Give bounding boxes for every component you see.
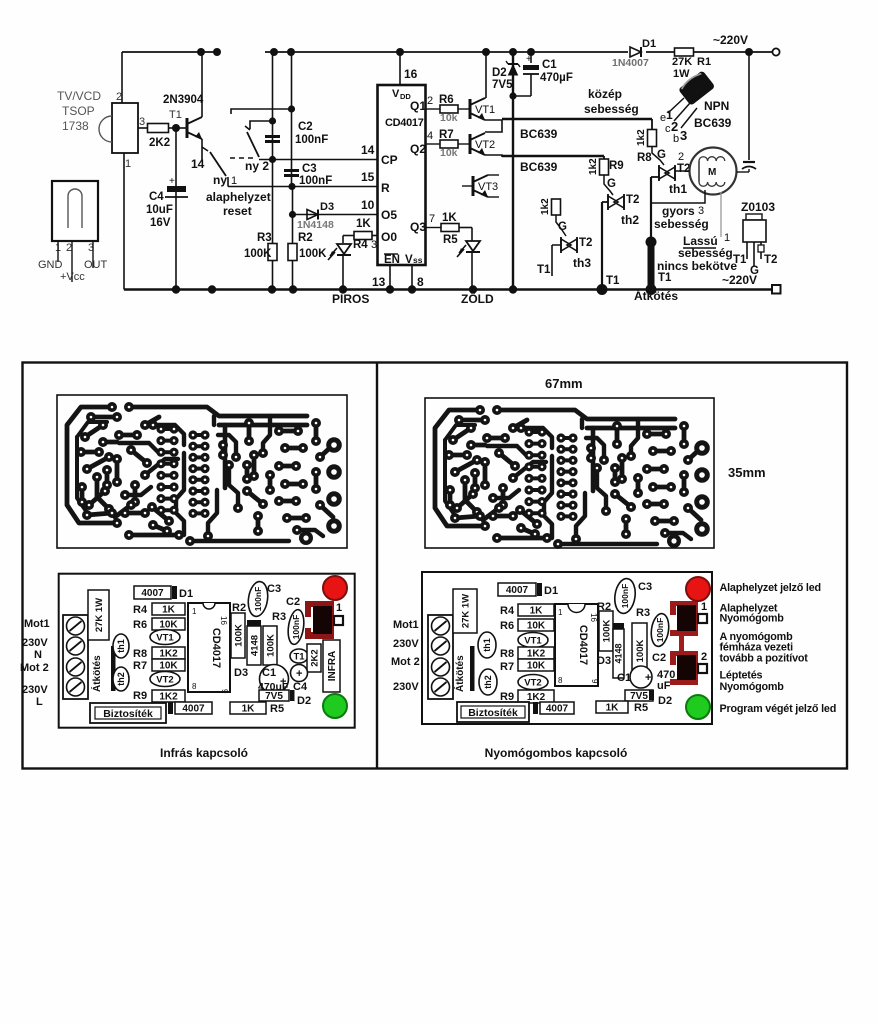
svg-text:G: G [750, 265, 759, 277]
svg-text:230V: 230V [22, 684, 48, 696]
svg-text:tovább a pozitívot: tovább a pozitívot [720, 653, 809, 665]
svg-text:2: 2 [671, 119, 678, 134]
svg-text:230V: 230V [22, 637, 48, 649]
svg-text:10K: 10K [527, 621, 546, 632]
svg-text:VT1: VT1 [524, 635, 542, 646]
svg-text:b: b [673, 133, 679, 145]
svg-text:+: + [645, 672, 651, 684]
svg-text:th2: th2 [621, 213, 639, 227]
svg-text:2: 2 [427, 95, 433, 107]
svg-text:VT2: VT2 [156, 674, 173, 685]
svg-text:th3: th3 [573, 256, 591, 270]
svg-text:Mot1: Mot1 [393, 619, 419, 631]
svg-text:~220V: ~220V [713, 33, 748, 47]
svg-text:T1: T1 [293, 651, 305, 662]
svg-text:100nF: 100nF [291, 615, 301, 640]
svg-text:15: 15 [361, 170, 375, 184]
svg-text:7: 7 [429, 213, 435, 225]
svg-text:közép: közép [588, 87, 622, 101]
svg-text:Átkötés: Átkötés [634, 288, 678, 303]
svg-text:PIROS: PIROS [332, 292, 369, 306]
svg-text:Alaphelyzet jelző led: Alaphelyzet jelző led [720, 582, 821, 594]
svg-text:2: 2 [116, 91, 122, 103]
svg-text:BC639: BC639 [694, 116, 732, 130]
svg-text:16: 16 [219, 616, 228, 625]
svg-text:R1: R1 [697, 56, 711, 68]
svg-text:3: 3 [139, 116, 145, 128]
svg-text:R: R [381, 181, 390, 195]
svg-text:TV/VCD: TV/VCD [57, 89, 101, 103]
svg-text:C3: C3 [638, 581, 652, 593]
svg-text:1: 1 [192, 607, 197, 616]
svg-text:100nF: 100nF [253, 587, 263, 612]
svg-text:R3: R3 [257, 232, 272, 244]
svg-text:1W: 1W [673, 68, 690, 80]
svg-text:th1: th1 [482, 638, 492, 652]
svg-text:4148: 4148 [249, 635, 260, 656]
svg-text:Mot1: Mot1 [24, 618, 50, 630]
svg-text:th2: th2 [483, 675, 493, 689]
svg-text:100nF: 100nF [295, 134, 328, 146]
svg-text:R8: R8 [500, 648, 514, 660]
svg-text:R7: R7 [133, 660, 147, 672]
svg-text:1K2: 1K2 [527, 649, 546, 660]
svg-text:Infrás kapcsoló: Infrás kapcsoló [160, 746, 248, 760]
svg-text:R4: R4 [133, 604, 148, 616]
svg-text:+: + [169, 176, 175, 187]
svg-text:+Vcc: +Vcc [60, 271, 85, 283]
svg-text:R2: R2 [232, 602, 246, 614]
svg-text:100nF: 100nF [299, 175, 332, 187]
svg-text:1K: 1K [442, 212, 457, 224]
svg-text:Q3: Q3 [410, 220, 426, 234]
svg-text:Q2: Q2 [410, 142, 426, 156]
svg-text:ny: ny [213, 173, 227, 187]
svg-text:BC639: BC639 [520, 160, 558, 174]
svg-text:sebesség: sebesség [678, 246, 733, 260]
svg-text:D1: D1 [179, 588, 193, 600]
svg-text:C2: C2 [298, 121, 313, 133]
svg-text:D1: D1 [642, 38, 656, 50]
svg-text:TSOP: TSOP [62, 104, 95, 118]
svg-text:4007: 4007 [506, 585, 529, 596]
svg-text:T2: T2 [677, 163, 690, 175]
svg-text:10k: 10k [440, 112, 458, 124]
svg-text:+: + [296, 668, 302, 680]
svg-text:1: 1 [701, 601, 707, 613]
svg-text:th1: th1 [669, 182, 687, 196]
svg-text:C1: C1 [542, 59, 557, 71]
svg-text:10K: 10K [159, 661, 178, 672]
svg-text:R6: R6 [439, 94, 454, 106]
svg-text:T1: T1 [606, 275, 620, 287]
svg-text:CD4017: CD4017 [385, 117, 424, 129]
svg-text:100K: 100K [299, 248, 327, 260]
svg-text:ss: ss [413, 255, 423, 265]
svg-text:Nyomógomb: Nyomógomb [720, 613, 785, 625]
svg-text:th1: th1 [116, 639, 126, 653]
svg-text:VT1: VT1 [475, 104, 495, 116]
svg-text:1K2: 1K2 [159, 649, 178, 660]
svg-text:D2: D2 [492, 67, 507, 79]
svg-text:M: M [708, 167, 716, 178]
svg-text:V: V [392, 88, 400, 100]
svg-text:D2: D2 [297, 695, 311, 707]
svg-text:T1: T1 [733, 254, 747, 266]
svg-text:+: + [280, 676, 286, 688]
svg-text:27K 1W: 27K 1W [460, 594, 471, 628]
svg-text:16: 16 [589, 613, 598, 622]
svg-text:EN: EN [384, 254, 400, 266]
svg-text:VT2: VT2 [475, 139, 495, 151]
svg-text:R4: R4 [353, 239, 368, 251]
svg-text:230V: 230V [393, 638, 419, 650]
svg-text:T2: T2 [579, 237, 592, 249]
svg-text:1738: 1738 [62, 119, 89, 133]
svg-text:C3: C3 [302, 163, 317, 175]
svg-text:reset: reset [223, 204, 252, 218]
svg-text:gyors: gyors [662, 204, 695, 218]
svg-text:100K: 100K [233, 624, 244, 647]
svg-text:2: 2 [678, 151, 684, 163]
svg-text:2N3904: 2N3904 [163, 94, 204, 106]
svg-text:R6: R6 [500, 620, 514, 632]
svg-text:Léptetés: Léptetés [720, 670, 763, 682]
svg-text:35mm: 35mm [728, 465, 766, 480]
svg-text:Z0103: Z0103 [741, 200, 775, 214]
svg-text:R9: R9 [133, 690, 147, 702]
svg-text:2: 2 [701, 651, 707, 663]
svg-text:CD4017: CD4017 [577, 625, 589, 665]
svg-text:V: V [405, 254, 413, 266]
svg-text:R5: R5 [443, 234, 458, 246]
svg-text:INFRA: INFRA [327, 651, 338, 682]
svg-text:1K: 1K [242, 704, 256, 715]
svg-text:T2: T2 [764, 254, 777, 266]
svg-text:O0: O0 [381, 230, 397, 244]
svg-text:R2: R2 [298, 232, 313, 244]
svg-text:C4: C4 [293, 681, 308, 693]
svg-text:R8: R8 [133, 648, 147, 660]
svg-text:D3: D3 [597, 655, 611, 667]
svg-text:R8: R8 [637, 152, 652, 164]
svg-text:Mot 2: Mot 2 [20, 662, 49, 674]
svg-text:16V: 16V [150, 217, 171, 229]
svg-text:R7: R7 [439, 129, 454, 141]
svg-text:1: 1 [558, 608, 563, 617]
svg-text:T1: T1 [169, 109, 182, 121]
svg-text:Program végét jelző led: Program végét jelző led [720, 703, 837, 715]
svg-text:C2: C2 [652, 652, 666, 664]
svg-text:Nyomógombos kapcsoló: Nyomógombos kapcsoló [485, 746, 628, 760]
svg-text:ZÖLD: ZÖLD [461, 291, 494, 306]
svg-text:1k2: 1k2 [540, 198, 551, 215]
svg-text:1N4148: 1N4148 [297, 219, 334, 231]
svg-text:4148: 4148 [614, 643, 624, 663]
svg-text:C4: C4 [149, 191, 164, 203]
svg-text:GND: GND [38, 259, 63, 271]
svg-text:R4: R4 [500, 605, 515, 617]
svg-text:alaphelyzet: alaphelyzet [206, 190, 271, 204]
svg-text:N: N [34, 649, 42, 661]
svg-text:O5: O5 [381, 208, 397, 222]
svg-text:470µF: 470µF [540, 72, 573, 84]
svg-text:14: 14 [191, 157, 205, 171]
svg-text:Átkötés: Átkötés [90, 655, 103, 692]
svg-text:T1: T1 [658, 272, 672, 284]
svg-text:67mm: 67mm [545, 376, 583, 391]
svg-text:230V: 230V [393, 681, 419, 693]
svg-text:D1: D1 [544, 585, 558, 597]
svg-text:7V5: 7V5 [492, 79, 513, 91]
svg-text:100K: 100K [635, 640, 646, 663]
svg-text:100nF: 100nF [655, 618, 665, 643]
svg-text:8: 8 [192, 682, 197, 691]
svg-text:1: 1 [724, 232, 730, 244]
svg-text:Biztosíték: Biztosíték [468, 707, 518, 719]
svg-text:R5: R5 [634, 702, 648, 714]
svg-text:10uF: 10uF [146, 204, 173, 216]
svg-text:CP: CP [381, 153, 398, 167]
svg-text:sebesség: sebesség [584, 102, 639, 116]
svg-text:7V5: 7V5 [630, 691, 648, 702]
svg-text:4007: 4007 [546, 704, 569, 715]
svg-text:27K: 27K [672, 56, 692, 68]
svg-text:OUT: OUT [84, 259, 108, 271]
svg-text:Biztosíték: Biztosíték [103, 708, 153, 720]
svg-text:ny 2: ny 2 [245, 159, 269, 173]
svg-text:T1: T1 [537, 264, 551, 276]
svg-text:Mot 2: Mot 2 [391, 656, 420, 668]
svg-text:10K: 10K [527, 661, 546, 672]
svg-text:1K: 1K [606, 703, 620, 714]
svg-text:T2: T2 [626, 194, 639, 206]
svg-text:8: 8 [558, 676, 563, 685]
svg-text:13: 13 [372, 275, 386, 289]
svg-text:R6: R6 [133, 619, 147, 631]
svg-text:R7: R7 [500, 661, 514, 673]
svg-text:1: 1 [231, 175, 237, 187]
svg-text:2K2: 2K2 [309, 649, 320, 666]
svg-text:+: + [526, 54, 532, 65]
svg-text:4007: 4007 [141, 588, 164, 599]
svg-text:1: 1 [125, 158, 131, 170]
svg-text:16: 16 [404, 67, 418, 81]
svg-text:R3: R3 [636, 607, 650, 619]
svg-text:4: 4 [427, 130, 433, 142]
svg-text:Nyomógomb: Nyomógomb [720, 681, 785, 693]
svg-text:9: 9 [220, 689, 229, 694]
svg-text:100nF: 100nF [620, 584, 630, 609]
svg-text:3: 3 [698, 205, 704, 217]
svg-text:th2: th2 [116, 672, 126, 686]
svg-text:1K: 1K [530, 606, 544, 617]
svg-text:R5: R5 [270, 703, 284, 715]
svg-text:D2: D2 [658, 695, 672, 707]
svg-text:1: 1 [336, 602, 342, 614]
svg-text:C1: C1 [617, 672, 631, 684]
svg-text:L: L [36, 696, 43, 708]
svg-text:100K: 100K [601, 620, 612, 643]
svg-text:100K: 100K [265, 634, 276, 657]
svg-text:C3: C3 [267, 583, 281, 595]
svg-text:10: 10 [361, 198, 375, 212]
svg-text:1K: 1K [162, 605, 176, 616]
svg-text:nincs bekötve: nincs bekötve [657, 259, 737, 273]
svg-text:14: 14 [361, 143, 375, 157]
svg-text:uF: uF [657, 680, 671, 692]
svg-text:VT2: VT2 [524, 677, 541, 688]
svg-text:8: 8 [417, 275, 424, 289]
svg-text:Q1: Q1 [410, 99, 426, 113]
svg-text:2K2: 2K2 [149, 137, 170, 149]
svg-text:CD4017: CD4017 [210, 628, 222, 668]
svg-text:R9: R9 [609, 160, 624, 172]
svg-text:10k: 10k [440, 147, 458, 159]
svg-text:9: 9 [590, 679, 599, 684]
svg-text:1N4007: 1N4007 [612, 57, 649, 69]
svg-text:2: 2 [66, 242, 72, 254]
svg-text:sebesség: sebesség [654, 217, 709, 231]
svg-text:1K: 1K [356, 218, 371, 230]
svg-text:7V5: 7V5 [265, 691, 283, 702]
svg-text:100K: 100K [244, 248, 272, 260]
svg-text:3: 3 [680, 128, 687, 143]
svg-text:R3: R3 [272, 611, 286, 623]
svg-text:D3: D3 [320, 201, 334, 213]
svg-text:NPN: NPN [704, 99, 729, 113]
svg-text:VT3: VT3 [478, 181, 498, 193]
svg-text:1K2: 1K2 [159, 692, 178, 703]
svg-text:BC639: BC639 [520, 127, 558, 141]
svg-text:C1: C1 [262, 667, 276, 679]
svg-text:D3: D3 [234, 667, 248, 679]
svg-text:4007: 4007 [182, 704, 205, 715]
svg-text:VT1: VT1 [156, 632, 174, 643]
svg-text:1k2: 1k2 [588, 158, 599, 175]
svg-text:C2: C2 [286, 596, 300, 608]
svg-text:27K 1W: 27K 1W [94, 598, 105, 632]
svg-text:Átkötés: Átkötés [453, 655, 466, 692]
svg-text:1k2: 1k2 [636, 129, 647, 146]
